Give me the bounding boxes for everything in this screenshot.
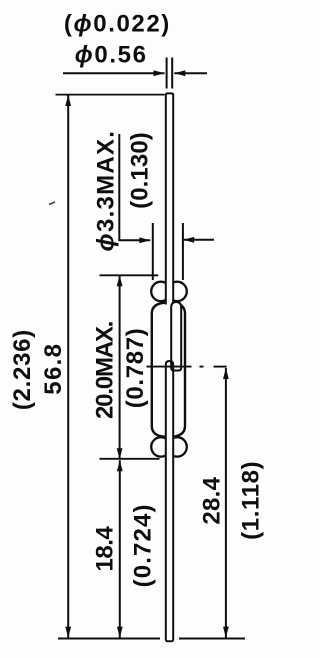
leader line for phi3.3MAX dimension (vertical then bend right with arrow) bbox=[119, 134, 150, 243]
extension line bottom of glass body (for 20.0 / 18.4) bbox=[100, 458, 160, 460]
svg-text:20.0MAX.: 20.0MAX. bbox=[91, 321, 118, 419]
bottom seal bulge left lobe bbox=[151, 437, 170, 456]
extension line right edge of glass body (phi3.3) bbox=[182, 223, 184, 280]
bottom seal bulge right lobe bbox=[167, 437, 186, 456]
upper reed blade tip outline over overlap bbox=[171, 362, 178, 371]
glass body envelope (capsule outline) bbox=[152, 303, 185, 438]
svg-text:(2.236): (2.236) bbox=[9, 329, 36, 410]
dimension line phi0.56 left segment with right-pointing arrow bbox=[63, 70, 165, 76]
stray scan tick mark left margin bbox=[49, 202, 55, 205]
svg-text:56.8: 56.8 bbox=[40, 343, 67, 395]
dimension line 28.4 with arrows both ends bbox=[223, 368, 229, 638]
dimension line phi0.56 right segment with left-pointing arrow bbox=[174, 70, 207, 76]
top seal bulge right lobe bbox=[167, 282, 186, 301]
dimension line 20.0MAX body length with arrows both ends bbox=[117, 275, 123, 459]
svg-text:(0.130): (0.130) bbox=[126, 132, 153, 209]
svg-text:28.4: 28.4 bbox=[199, 476, 226, 524]
dimension line 56.8 overall length with arrows both ends bbox=[65, 95, 71, 638]
svg-text:(ϕ0.022): (ϕ0.022) bbox=[64, 11, 171, 38]
phi3.3 right arrow pointing left at body edge bbox=[183, 237, 214, 243]
top seal bulge left lobe bbox=[151, 282, 170, 301]
extension line bottom of lead right segment bbox=[179, 638, 245, 640]
svg-text:(1.118): (1.118) bbox=[237, 461, 264, 540]
extension tick left edge of lead bbox=[166, 58, 168, 89]
dimension line 18.4 lower lead length with arrows both ends bbox=[117, 460, 123, 637]
extension line top of lead (for 56.8) bbox=[56, 94, 165, 96]
extension line top of glass body (for 20.0MAX) bbox=[100, 274, 159, 276]
upper reed blade inside glass bbox=[171, 302, 181, 371]
svg-text:(0.787): (0.787) bbox=[122, 328, 149, 409]
extension tick right edge of lead bbox=[171, 58, 173, 89]
extension line bottom of lead left segment bbox=[58, 638, 160, 640]
centerline of body (dash-dot) bbox=[147, 366, 227, 368]
svg-text:(0.724): (0.724) bbox=[130, 503, 157, 587]
svg-text:ϕ3.3MAX.: ϕ3.3MAX. bbox=[92, 130, 119, 252]
upper lead wire bbox=[166, 93, 173, 304]
lower reed blade and lower lead wire bbox=[166, 361, 173, 641]
svg-text:ϕ0.56: ϕ0.56 bbox=[75, 42, 148, 69]
svg-text:18.4: 18.4 bbox=[92, 526, 119, 572]
extension line left edge of glass body (phi3.3) bbox=[152, 223, 154, 280]
